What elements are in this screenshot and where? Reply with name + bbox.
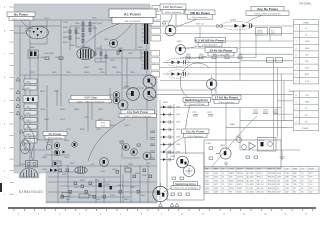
svg-text:IC601: IC601 bbox=[170, 156, 176, 158]
svg-text:COLD: COLD bbox=[100, 126, 106, 128]
svg-text:PRI 1-3: PRI 1-3 bbox=[257, 173, 263, 175]
startup transistor Q801 bbox=[109, 39, 118, 47]
svg-text:DC 600V: DC 600V bbox=[247, 192, 255, 194]
half-moon IC bottom-left bbox=[20, 168, 38, 177]
svg-text:AC 250V: AC 250V bbox=[247, 179, 255, 182]
callout: 6.3V LNS No Power bbox=[195, 38, 226, 47]
svg-text:HOT: HOT bbox=[309, 173, 313, 175]
connector table CN802 right bbox=[294, 91, 319, 131]
svg-text:SEC 5-6: SEC 5-6 bbox=[257, 188, 263, 190]
tiny labels scatter (white area) bbox=[163, 20, 295, 159]
svg-text:Ac Power: Ac Power bbox=[124, 13, 142, 17]
svg-text:D8 is Defective: D8 is Defective bbox=[193, 16, 208, 19]
svg-text:R805: R805 bbox=[271, 33, 275, 35]
callout: sub power bbox=[119, 110, 157, 118]
svg-text:RL801: RL801 bbox=[54, 145, 61, 147]
pass transistor in box bbox=[216, 148, 231, 159]
svg-text:HOT L/O: HOT L/O bbox=[196, 24, 204, 26]
opto feedback cluster bbox=[237, 138, 276, 152]
sheet tab label bbox=[152, 6, 161, 12]
leader from bottom Switching Error callout bbox=[157, 188, 171, 195]
svg-text:IC801, IC802 are Defective: IC801, IC802 are Defective bbox=[254, 12, 281, 15]
standby regulator cluster mid-bottom bbox=[120, 140, 140, 158]
svg-text:T802: T802 bbox=[205, 177, 209, 179]
svg-text:2439: 2439 bbox=[214, 192, 218, 194]
bottom ruler ticks bbox=[14, 208, 313, 211]
svg-text:AC 250V: AC 250V bbox=[247, 176, 255, 179]
svg-text:RELAY: RELAY bbox=[257, 32, 264, 35]
ground symbol near opto bbox=[280, 157, 285, 160]
svg-text:Any No/E Power: Any No/E Power bbox=[127, 110, 150, 114]
callout: 4.5V chip bbox=[69, 95, 112, 103]
snubber ellipse cluster 1 bbox=[167, 58, 189, 66]
dark caps bottom area bbox=[99, 183, 102, 187]
svg-text:PC817: PC817 bbox=[237, 188, 242, 190]
small relay circle bbox=[46, 144, 51, 149]
leader from VIN callout bbox=[174, 20, 196, 29]
svg-text:110V 60: 110V 60 bbox=[237, 177, 243, 179]
callout: VIN No Power bbox=[185, 10, 215, 19]
svg-text:110V 60: 110V 60 bbox=[237, 173, 243, 175]
svg-text:K2645: K2645 bbox=[237, 192, 242, 194]
svg-text:SEC 1-2: SEC 1-2 bbox=[257, 180, 263, 182]
svg-text:IC601 - IC604 are Defective: IC601 - IC604 are Defective bbox=[124, 115, 152, 118]
relay coil dark contacts bbox=[27, 98, 29, 102]
warning triangles bbox=[16, 21, 179, 207]
leader from No Power (fuse) callout bbox=[47, 139, 50, 150]
svg-text:IC8 is Defective: IC8 is Defective bbox=[188, 135, 204, 138]
svg-text:2437: 2437 bbox=[214, 184, 218, 186]
svg-text:16: 16 bbox=[222, 188, 224, 190]
leader long arc to parts table bbox=[212, 116, 257, 167]
svg-text:Vcc No Power: Vcc No Power bbox=[186, 130, 206, 134]
svg-text:DC 35V: DC 35V bbox=[247, 188, 254, 190]
svg-text:13 kV No Power: 13 kV No Power bbox=[209, 48, 233, 52]
svg-text:SR8-4755: SR8-4755 bbox=[268, 192, 276, 194]
leader arc from sub power callout bbox=[88, 119, 125, 161]
hot/cold label box bbox=[96, 121, 110, 128]
svg-text:HOT: HOT bbox=[309, 177, 313, 179]
svg-text:DG801: DG801 bbox=[230, 20, 237, 22]
edge power transistors Q803 Q804 bbox=[143, 75, 156, 100]
vertical IC crossed circle bbox=[183, 165, 194, 176]
svg-text:VIN No Power: VIN No Power bbox=[190, 11, 211, 15]
svg-text:GND: GND bbox=[305, 48, 310, 50]
secondary rectifier column bbox=[160, 107, 174, 160]
svg-text:2438: 2438 bbox=[214, 188, 218, 190]
svg-text:REF: REF bbox=[205, 169, 208, 171]
regulator transistors right of transformer bbox=[165, 25, 185, 54]
svg-text:CN803: CN803 bbox=[288, 91, 295, 93]
leader curve from AC Power callout to filter bbox=[82, 24, 120, 49]
parts table cell text bbox=[205, 168, 315, 194]
extra secondary horizontals bbox=[157, 62, 240, 90]
svg-text:Check if IC8 def: Check if IC8 def bbox=[189, 104, 205, 106]
svg-text:AC 250V: AC 250V bbox=[247, 172, 255, 175]
leader from Any No Power callout bbox=[247, 15, 262, 22]
svg-text:FET: FET bbox=[229, 192, 232, 194]
svg-text:AC IN: AC IN bbox=[41, 25, 47, 28]
degauss dashed ellipse bbox=[222, 22, 253, 30]
component marks on gray sheet bbox=[45, 23, 152, 199]
svg-text:No: No bbox=[222, 169, 224, 171]
leader from 13kV callout bbox=[187, 56, 207, 58]
svg-text:GND: GND bbox=[305, 102, 310, 104]
svg-text:SR8-4753: SR8-4753 bbox=[268, 184, 276, 186]
svg-text:Switching Error: Switching Error bbox=[185, 98, 209, 102]
svg-text:D8 is Defective: D8 is Defective bbox=[203, 44, 218, 47]
left ruler numbers bbox=[4, 7, 6, 196]
caps cluster mid right bbox=[193, 112, 278, 116]
svg-text:BRDG: BRDG bbox=[229, 180, 235, 182]
main switching FET Q802 bbox=[118, 88, 139, 110]
leader from 6.3V callout bbox=[183, 46, 197, 48]
leader arc up from Switching Error to j4 bbox=[180, 63, 209, 98]
svg-text:C861: C861 bbox=[176, 107, 180, 109]
tiny labels scatter (gray sheet) bbox=[20, 18, 152, 202]
ground symbol under rect1 bbox=[224, 163, 228, 166]
callout: AC Power (top-center) bbox=[109, 9, 156, 24]
svg-text:SR8-4754: SR8-4754 bbox=[268, 188, 276, 190]
svg-text:80W: 80W bbox=[293, 173, 297, 175]
svg-text:SW 1.8 GHz/LR: SW 1.8 GHz/LR bbox=[125, 21, 141, 23]
svg-text:17 kV No Power: 17 kV No Power bbox=[215, 96, 239, 100]
callout: FGC No Power bbox=[160, 4, 186, 14]
svg-text:13: 13 bbox=[222, 177, 224, 179]
svg-text:CN801: CN801 bbox=[303, 22, 310, 24]
svg-text:D5V: D5V bbox=[305, 68, 310, 70]
svg-text:No Power: No Power bbox=[14, 13, 29, 17]
input RC block bbox=[28, 50, 39, 58]
callout: 13kV No Power bbox=[205, 48, 237, 57]
j4 regulator circle bbox=[207, 75, 217, 94]
scan binder mark bbox=[0, 183, 2, 192]
callout: Any No Power bbox=[246, 6, 289, 15]
svg-text:A5V: A5V bbox=[305, 73, 309, 76]
leader arc from Switching Error callout bbox=[185, 106, 190, 155]
sub regulator transistors bottom band bbox=[100, 152, 151, 166]
svg-text:SXR84750403: SXR84750403 bbox=[19, 190, 43, 194]
T802 winding ticks bbox=[142, 21, 144, 68]
svg-text:2434: 2434 bbox=[214, 173, 218, 175]
svg-text:3W: 3W bbox=[293, 192, 296, 194]
deflection driver transistor bbox=[177, 156, 189, 168]
parts list table bottom right bbox=[204, 167, 319, 194]
leader curve from AC Power callout to Q801 bbox=[115, 24, 132, 41]
svg-text:Check if IC are Defective: Check if IC are Defective bbox=[173, 187, 198, 190]
svg-text:No Power: No Power bbox=[49, 132, 63, 136]
svg-text:C867: C867 bbox=[176, 152, 180, 154]
svg-text:1.8V: 1.8V bbox=[305, 95, 310, 97]
svg-text:D80 is Defective: D80 is Defective bbox=[165, 11, 182, 14]
relay contact box bbox=[25, 161, 37, 167]
snubber diodes black bbox=[56, 151, 59, 154]
svg-text:15: 15 bbox=[222, 184, 224, 186]
svg-text:Switching Error: Switching Error bbox=[175, 182, 197, 186]
bottom ruler line bbox=[8, 207, 316, 209]
svg-text:TOL: TOL bbox=[301, 169, 304, 171]
callout: 17kV No Power bbox=[212, 95, 241, 104]
svg-text:2436: 2436 bbox=[214, 180, 218, 182]
svg-text:SW801: SW801 bbox=[25, 99, 32, 101]
svg-text:IC801: IC801 bbox=[205, 184, 210, 186]
svg-text:180V: 180V bbox=[305, 41, 310, 43]
svg-text:14: 14 bbox=[222, 180, 224, 182]
svg-text:PRI 2-4: PRI 2-4 bbox=[257, 177, 263, 179]
bridge rectifier D801 bbox=[27, 26, 49, 39]
filter row components y57 bbox=[186, 56, 242, 59]
svg-text:IC802: IC802 bbox=[259, 140, 265, 142]
svg-text:W6754: W6754 bbox=[237, 184, 242, 186]
svg-text:3.3V: 3.3V bbox=[305, 81, 310, 83]
svg-text:OPTO: OPTO bbox=[229, 188, 234, 190]
wire bus (gray sheet horizontals) bbox=[14, 20, 157, 202]
svg-text:SR8-4750: SR8-4750 bbox=[268, 173, 276, 175]
svg-text:C862: C862 bbox=[176, 114, 180, 116]
wire bus (gray sheet verticals) bbox=[20, 20, 148, 203]
transformer pin boxes bbox=[151, 15, 161, 78]
svg-text:FGC No Power: FGC No Power bbox=[163, 5, 183, 9]
callout: Vcc Vdd No Power bbox=[182, 129, 210, 138]
leader from Vcc Vdd callout bbox=[163, 138, 183, 154]
svg-text:5W: 5W bbox=[293, 188, 296, 190]
svg-text:IC801 - IC802 are Defective: IC801 - IC802 are Defective bbox=[77, 100, 105, 103]
AC input chain component boxes bbox=[23, 79, 38, 143]
svg-text:SEC 3-4: SEC 3-4 bbox=[257, 184, 263, 186]
output choke coil bbox=[75, 167, 87, 174]
posistor cluster bbox=[53, 161, 61, 166]
degauss drive transistors bbox=[54, 142, 77, 156]
inlet routing curve bbox=[27, 125, 34, 160]
left ruler ticks bbox=[10, 7, 14, 194]
svg-text:SR8-4752: SR8-4752 bbox=[268, 180, 276, 182]
svg-text:DC 650V: DC 650V bbox=[247, 184, 255, 186]
leader from FGC callout bbox=[168, 14, 172, 25]
rectifier diodes bottom row bbox=[50, 169, 53, 172]
svg-text:R820 1/4W: R820 1/4W bbox=[92, 23, 102, 25]
callout: bottom Switching Error bbox=[171, 182, 200, 190]
svg-text:17: 17 bbox=[222, 192, 224, 194]
svg-text:SEC 7-8: SEC 7-8 bbox=[257, 192, 263, 194]
svg-text:IC801: IC801 bbox=[206, 143, 212, 145]
leader curve from No Power callout to bridge bbox=[21, 21, 33, 30]
svg-text:IC851: IC851 bbox=[20, 164, 26, 166]
snubber ellipse cluster 2 bbox=[167, 70, 189, 78]
deflection sub-circuit box bbox=[167, 153, 204, 200]
bottom ruler numbers bbox=[18, 214, 308, 216]
svg-text:IC802: IC802 bbox=[205, 188, 210, 190]
svg-text:D801: D801 bbox=[205, 180, 209, 182]
svg-text:C810 400V: C810 400V bbox=[44, 53, 55, 55]
callout: No Power (fuse) bbox=[43, 132, 67, 140]
svg-text:4.5V Chip: 4.5V Chip bbox=[84, 96, 97, 100]
secondary wires (white area horizontals) bbox=[150, 26, 300, 150]
callout: No Power (top-left) bbox=[7, 12, 35, 21]
svg-text:VOLT: VOLT bbox=[277, 169, 281, 171]
svg-text:40W: 40W bbox=[293, 177, 297, 179]
callout: Switching Error bbox=[183, 98, 211, 107]
test point circles bbox=[216, 25, 219, 28]
svg-text:6.3 V/LNS No Power: 6.3 V/LNS No Power bbox=[195, 39, 225, 43]
svg-text:C865: C865 bbox=[176, 137, 180, 139]
svg-text:CN802: CN802 bbox=[302, 128, 309, 130]
svg-text:BR806: BR806 bbox=[25, 31, 32, 33]
startup diode black bbox=[120, 49, 123, 52]
svg-text:20W: 20W bbox=[293, 180, 297, 182]
AC inlet loop bbox=[20, 140, 30, 154]
sub-circuit box IC801 area bbox=[204, 140, 281, 168]
horizontal output transistor bottom bbox=[153, 183, 168, 203]
svg-text:C863: C863 bbox=[176, 122, 180, 124]
line filter T801 bbox=[77, 48, 94, 60]
svg-text:2435: 2435 bbox=[214, 177, 218, 179]
svg-text:SR8-4751: SR8-4751 bbox=[268, 177, 276, 179]
svg-text:600V 4A: 600V 4A bbox=[237, 179, 244, 182]
relay boxes MX801 PTC bbox=[256, 28, 282, 36]
switching transformer T802 core bars bbox=[144, 18, 148, 70]
small boxes lower rows bbox=[62, 193, 89, 199]
driver transistors mid bbox=[110, 88, 120, 104]
svg-text:F8 is Defective: F8 is Defective bbox=[48, 136, 63, 139]
svg-text:12: 12 bbox=[222, 173, 224, 175]
small parts below box bbox=[171, 147, 258, 195]
svg-text:D801 is Defective: D801 is Defective bbox=[12, 18, 30, 21]
sense resistor boxes bbox=[267, 58, 283, 63]
connector table CN801 top right bbox=[294, 20, 319, 84]
svg-text:H-: H- bbox=[305, 35, 307, 37]
svg-text:D8 is Defective: D8 is Defective bbox=[219, 101, 234, 104]
svg-text:15W: 15W bbox=[293, 184, 297, 186]
scanned schematic gray sheet bbox=[14, 4, 157, 203]
svg-text:C866: C866 bbox=[176, 144, 180, 146]
parts column left of transformer edge bbox=[150, 131, 155, 160]
svg-text:C864: C864 bbox=[176, 129, 180, 131]
svg-text:T8A CN801: T8A CN801 bbox=[299, 3, 312, 6]
secondary wires (white area verticals) bbox=[160, 14, 284, 200]
svg-text:Q801: Q801 bbox=[205, 192, 209, 194]
svg-text:T801: T801 bbox=[205, 173, 209, 175]
svg-text:Any No Power: Any No Power bbox=[257, 7, 279, 11]
